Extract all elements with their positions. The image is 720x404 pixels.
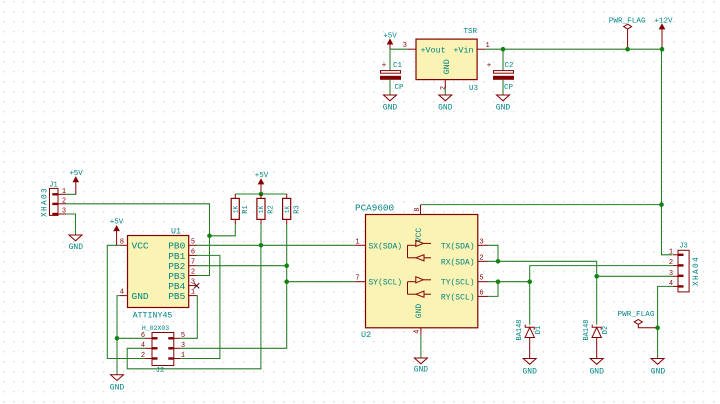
junction R2 top xyxy=(259,192,264,197)
svg-text:1: 1 xyxy=(355,238,359,246)
svg-text:2: 2 xyxy=(141,352,145,360)
junction SDA/D2 xyxy=(594,274,599,279)
wire +5V rail over resistors xyxy=(235,193,286,195)
svg-text:J2: J2 xyxy=(156,367,164,375)
wire SCL up to J3 pin2 xyxy=(530,266,673,282)
svg-text:C2: C2 xyxy=(505,62,514,70)
capacitor C1 xyxy=(381,49,405,95)
svg-text:PB5: PB5 xyxy=(168,291,185,302)
ground (D1) xyxy=(522,359,537,377)
svg-text:TX(SDA): TX(SDA) xyxy=(441,242,475,251)
svg-text:3: 3 xyxy=(62,208,66,216)
svg-text:RX(SDA): RX(SDA) xyxy=(441,258,475,267)
svg-text:H_02X03: H_02X03 xyxy=(142,325,169,332)
svg-text:3: 3 xyxy=(669,270,673,278)
power +5V (resistors) xyxy=(255,172,269,194)
svg-text:3: 3 xyxy=(403,42,407,50)
junction TX/RX xyxy=(496,259,501,264)
svg-text:D1: D1 xyxy=(535,326,543,334)
wire RY(SCL) up to TY line xyxy=(488,282,498,297)
svg-text:7: 7 xyxy=(191,259,195,267)
svg-text:+5V: +5V xyxy=(110,219,124,227)
svg-text:SX(SDA): SX(SDA) xyxy=(369,242,403,251)
junction PWR_FLAG bottom xyxy=(655,326,660,331)
svg-text:ATTINY45: ATTINY45 xyxy=(133,312,173,321)
J3 pin pads and stubs xyxy=(678,254,684,256)
svg-text:4: 4 xyxy=(413,330,421,334)
wire PB0 to SX(SDA) xyxy=(197,244,355,246)
svg-text:GND: GND xyxy=(110,384,125,393)
svg-text:RY(SCL): RY(SCL) xyxy=(441,293,475,302)
svg-text:1K: 1K xyxy=(258,206,265,214)
svg-text:U3: U3 xyxy=(469,85,479,93)
svg-text:GND: GND xyxy=(69,243,84,252)
junction R3/PB2 xyxy=(284,263,289,268)
svg-text:+Vout: +Vout xyxy=(421,45,446,55)
svg-text:C1: C1 xyxy=(393,62,403,70)
regulator U3 TSR xyxy=(403,28,490,93)
svg-text:+: + xyxy=(382,62,387,70)
svg-text:GND: GND xyxy=(132,291,149,302)
svg-text:R2: R2 xyxy=(268,205,276,213)
wire U1 GND down to ground/J2 pin6 xyxy=(117,296,120,375)
wire U2 VCC to +12V rail xyxy=(421,204,662,206)
ground (TSR pin2) xyxy=(438,95,453,113)
ground (D2) xyxy=(589,359,604,377)
wire TSR pin2 to GND xyxy=(444,88,446,95)
svg-text:PCA9600: PCA9600 xyxy=(355,203,394,214)
svg-text:GND: GND xyxy=(651,368,666,377)
svg-text:TY(SCL): TY(SCL) xyxy=(441,279,475,288)
svg-text:1K: 1K xyxy=(284,206,291,214)
connector J2 H_02X03 xyxy=(141,325,185,375)
wire J1 pin1 to +5V xyxy=(66,193,76,195)
power flag PWR_FLAG (top) xyxy=(609,18,646,50)
svg-text:8: 8 xyxy=(120,238,124,246)
wire TSR pin1 to right vertical xyxy=(485,48,661,50)
svg-text:2: 2 xyxy=(669,259,673,267)
wire J1 pin3 to GND xyxy=(66,214,75,235)
diode D2 BA148 xyxy=(583,276,610,358)
wire J1 pin2 to PB3 (node) xyxy=(66,204,209,276)
svg-text:+5V: +5V xyxy=(255,172,269,180)
svg-text:R3: R3 xyxy=(293,205,301,213)
junction TY/RY xyxy=(496,279,501,284)
svg-text:R1: R1 xyxy=(242,205,250,213)
wire PB5 to J2 pin5 xyxy=(180,296,197,339)
wire R3 bottom down to J2 pin3 xyxy=(180,224,287,348)
svg-text:1: 1 xyxy=(62,188,66,196)
svg-text:GND: GND xyxy=(415,304,424,319)
svg-text:3: 3 xyxy=(181,342,185,350)
svg-text:PWR_FLAG: PWR_FLAG xyxy=(609,18,646,26)
svg-text:GND: GND xyxy=(496,104,511,113)
svg-text:GND: GND xyxy=(589,368,604,377)
junction U2 VCC rail xyxy=(659,202,664,207)
svg-text:U2: U2 xyxy=(361,330,371,340)
svg-text:8: 8 xyxy=(414,207,422,211)
power +12V xyxy=(654,17,673,49)
svg-text:6: 6 xyxy=(479,289,483,297)
svg-text:J1: J1 xyxy=(49,182,57,190)
ground (C2) xyxy=(496,95,511,113)
svg-text:4: 4 xyxy=(120,289,124,297)
ground (U2) xyxy=(414,358,429,375)
svg-text:+12V: +12V xyxy=(654,17,673,25)
svg-text:5: 5 xyxy=(191,238,195,246)
resistor R1 xyxy=(231,194,250,224)
svg-text:5: 5 xyxy=(479,275,483,283)
junction R3/SY xyxy=(284,279,289,284)
svg-text:CP: CP xyxy=(504,84,514,92)
connector J1 XHA03 xyxy=(42,182,67,217)
resistor R2 xyxy=(257,194,276,224)
svg-text:2: 2 xyxy=(62,198,66,206)
svg-text:5: 5 xyxy=(181,332,185,340)
svg-text:6: 6 xyxy=(191,248,195,256)
wire PB1 to J2 pin1 xyxy=(180,255,220,358)
svg-text:GND: GND xyxy=(522,368,537,377)
svg-text:XHA03: XHA03 xyxy=(42,187,50,217)
svg-text:4: 4 xyxy=(141,342,145,350)
wire PB2 to R3 junction xyxy=(197,265,287,267)
svg-text:6: 6 xyxy=(141,332,145,340)
svg-text:3: 3 xyxy=(191,279,195,287)
wire SY line to U2 xyxy=(287,281,355,283)
svg-text:2: 2 xyxy=(479,254,483,262)
junction +12V xyxy=(660,47,665,52)
wire R2 bottom to PB0 line and J2 pin4 xyxy=(127,224,261,369)
svg-text:GND: GND xyxy=(414,366,429,375)
svg-text:XHA04: XHA04 xyxy=(693,256,701,286)
svg-text:BA148: BA148 xyxy=(583,319,591,340)
wire TY(SCL) line to D1 node xyxy=(488,281,530,283)
capacitor C2 xyxy=(487,49,514,95)
svg-text:7: 7 xyxy=(355,275,359,283)
J1 pin pads and stubs xyxy=(52,193,58,195)
svg-text:1: 1 xyxy=(669,248,673,256)
svg-text:+Vin: +Vin xyxy=(453,45,473,55)
svg-text:1K: 1K xyxy=(232,206,239,214)
svg-text:VCC: VCC xyxy=(132,241,149,252)
power +5V (J1) xyxy=(69,170,83,194)
junction PWR_FLAG xyxy=(625,47,630,52)
ground (J1) xyxy=(69,235,84,252)
mcu U1 ATTINY45 xyxy=(120,228,197,321)
ground (J3 pin4) xyxy=(651,359,666,377)
wire U1 VCC to +5V and J2 pin2 xyxy=(107,245,145,358)
wire RX(SDA) line to J3 pin3 xyxy=(488,261,673,276)
svg-text:1: 1 xyxy=(181,352,185,360)
svg-text:U1: U1 xyxy=(171,228,181,237)
U3 pin 3 (+Vout) stub xyxy=(408,48,416,50)
U2 internal buffer symbols xyxy=(408,240,432,297)
svg-text:1: 1 xyxy=(191,289,195,297)
connector J3 XHA04 xyxy=(669,243,701,292)
diode D1 BA148 xyxy=(516,282,543,359)
no-connect X on PB4 xyxy=(194,283,199,288)
svg-text:TSR: TSR xyxy=(463,28,477,36)
junction GND/J2 pin6 xyxy=(115,336,120,341)
wire +5V to TSR pin 3 xyxy=(390,48,408,50)
svg-text:CP: CP xyxy=(395,84,405,92)
wire TX(SDA) down to RX line xyxy=(488,245,498,261)
svg-text:+: + xyxy=(487,62,492,70)
power +5V (U1 VCC) xyxy=(110,219,124,246)
junction R2/PB0 xyxy=(259,243,264,248)
svg-text:+5V: +5V xyxy=(383,32,397,40)
junction SCL/D1 xyxy=(527,279,532,284)
svg-text:2: 2 xyxy=(191,269,195,277)
svg-text:GND: GND xyxy=(438,104,453,113)
svg-text:2: 2 xyxy=(440,86,448,90)
junction R1/PB3 xyxy=(207,234,212,239)
svg-text:PWR_FLAG: PWR_FLAG xyxy=(618,311,655,319)
svg-text:SY(SCL): SY(SCL) xyxy=(369,279,403,288)
J2 pin pads and stubs xyxy=(152,337,158,339)
power flag PWR_FLAG (bottom) xyxy=(618,311,658,328)
power +5V (at TSR input) xyxy=(383,32,397,49)
svg-text:GND: GND xyxy=(383,104,398,113)
wire U2 GND pin to ground xyxy=(420,335,422,358)
svg-text:J3: J3 xyxy=(679,243,687,251)
wire J3 pin4 down to PWR_FLAG node and GND xyxy=(658,286,673,358)
wire junction to J2 pin6 xyxy=(117,337,146,339)
ground (C1) xyxy=(383,95,398,113)
ground (U1/J2) xyxy=(110,375,125,393)
buffer U2 PCA9600 xyxy=(355,203,488,341)
svg-text:3: 3 xyxy=(479,238,483,246)
wire +12V rail down right side to J3 pin1 xyxy=(662,49,673,255)
junction C2 top xyxy=(501,47,506,52)
svg-text:D2: D2 xyxy=(602,326,610,334)
svg-text:+5V: +5V xyxy=(69,170,83,178)
wire R1 bottom to PB3 node xyxy=(210,224,236,236)
svg-text:BA148: BA148 xyxy=(516,319,524,340)
resistor R3 xyxy=(283,194,302,224)
svg-text:GND: GND xyxy=(442,59,452,74)
